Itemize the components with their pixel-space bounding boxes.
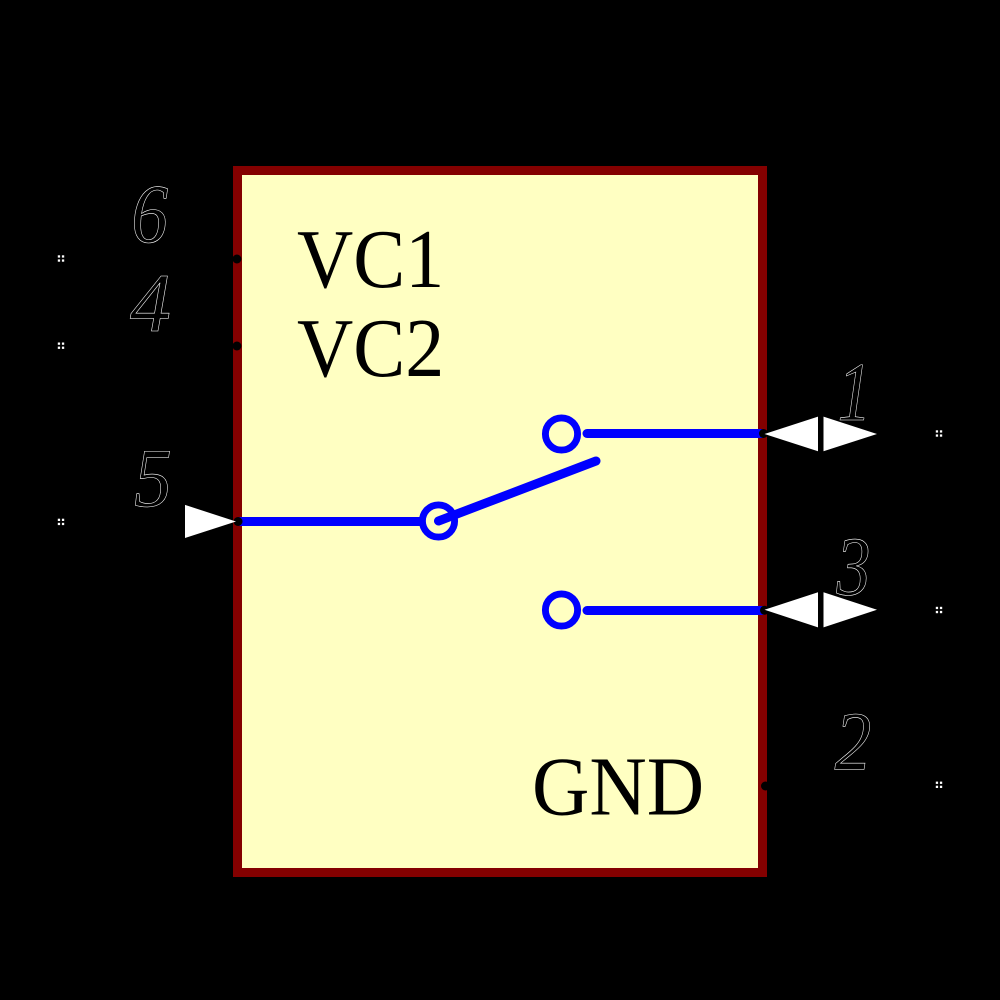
pin 3 bidirectional arrow — [765, 592, 878, 627]
wire from pin 5 to pole — [240, 517, 421, 526]
pin number 4 — [130, 256, 171, 349]
pin 6 endpoint dot — [232, 255, 241, 264]
label GND — [532, 740, 704, 833]
switch throw circle pin 3 — [545, 594, 577, 626]
pin 5 type marker — [58, 519, 64, 525]
pin number 6 — [131, 168, 168, 261]
label VC1 — [297, 212, 444, 305]
svg-text:2: 2 — [835, 696, 872, 789]
pin 3 endpoint dot — [760, 606, 769, 615]
switch pole circle — [422, 505, 454, 537]
svg-text:VC1: VC1 — [297, 212, 444, 305]
svg-text:5: 5 — [134, 432, 172, 525]
svg-text:3: 3 — [836, 520, 871, 614]
pin 3 type marker — [936, 607, 942, 613]
wire to pin 1 — [587, 429, 762, 438]
wire to pin 3 — [587, 606, 762, 615]
pin 4 type marker — [58, 343, 64, 349]
pin 2 endpoint dot — [761, 782, 770, 791]
label VC2 — [297, 301, 444, 394]
pin 5 input arrow — [185, 505, 236, 538]
pin 4 endpoint dot — [232, 342, 241, 351]
svg-text:6: 6 — [131, 168, 168, 261]
switch lever — [439, 461, 597, 521]
symbol body U1 — [238, 171, 763, 873]
pin number 2 — [835, 696, 872, 789]
svg-text:GND: GND — [532, 740, 704, 833]
pin 1 endpoint dot — [759, 429, 768, 438]
svg-text:VC2: VC2 — [297, 301, 444, 394]
pin 2 type marker — [936, 782, 942, 788]
pin 1 bidirectional arrow — [765, 417, 878, 452]
pin number 3 — [836, 520, 871, 614]
pin number 1 — [838, 346, 872, 439]
switch throw circle pin 1 — [545, 418, 577, 450]
pin 6 type marker — [58, 255, 64, 261]
svg-text:1: 1 — [838, 346, 872, 439]
pin 5 endpoint dot — [234, 517, 243, 526]
svg-text:4: 4 — [130, 256, 171, 349]
pin 1 type marker — [936, 430, 942, 436]
pin number 5 — [134, 432, 172, 525]
